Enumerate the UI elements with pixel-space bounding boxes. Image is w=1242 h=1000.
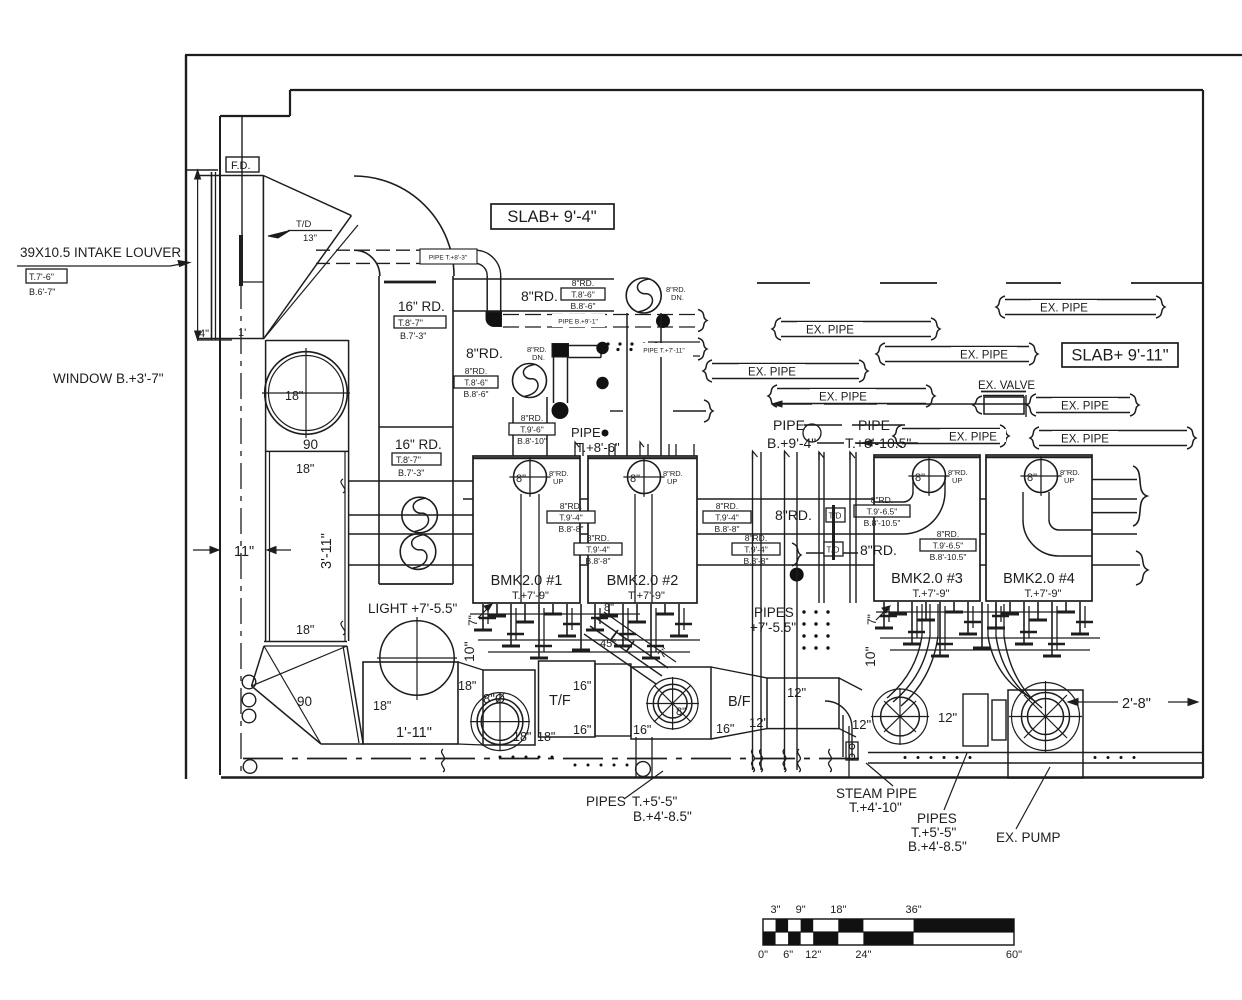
svg-text:EX. PIPE: EX. PIPE [806,325,854,337]
svg-text:2'-8": 2'-8" [1122,696,1151,712]
svg-text:T.8'-7": T.8'-7" [398,318,423,328]
slab edge dash 4 [1131,282,1203,284]
duct 16RD top bar [384,281,436,284]
scale bar [763,919,1014,945]
svg-text:EX. PIPE: EX. PIPE [819,392,867,404]
junction dot mid [790,568,804,582]
svg-text:PIPE B.+9'-1": PIPE B.+9'-1" [558,319,598,326]
fan 8RD top [626,278,661,313]
elbow90 left slant [252,646,265,686]
transition diagonal inner [263,225,358,339]
svg-text:T.9'-6.5": T.9'-6.5" [867,507,898,517]
label 8RD boxed left [454,366,498,399]
duct 16RD divider [379,426,453,428]
svg-text:8": 8" [630,473,640,485]
louver dim arrow bottom [195,331,201,340]
svg-text:T.9'-4": T.9'-4" [744,545,768,555]
riser flag b [850,452,855,460]
pump1 rect [483,670,535,745]
dim 2-8 [1068,701,1118,703]
band break 4 [783,749,786,772]
stub flags [575,442,579,448]
TD box b [824,542,843,556]
svg-text:T.7'-6": T.7'-6" [29,272,54,282]
svg-text:BMK2.0 #2: BMK2.0 #2 [607,573,679,589]
svg-text:T.9'-6.5": T.9'-6.5" [933,541,964,551]
svg-text:B.7'-3": B.7'-3" [398,468,424,478]
riser line through F.D. [241,116,243,283]
dotted run a [606,342,609,345]
svg-text:EX. PUMP: EX. PUMP [996,830,1061,845]
ex pipe 4 [768,385,935,407]
svg-text:8"RD.: 8"RD. [937,529,959,539]
ex valve bars [981,391,1026,393]
flange band hlines b [880,637,1100,639]
plenum inner tick [242,281,263,283]
svg-text:8": 8" [516,473,526,485]
TF box [539,661,596,737]
flange band hlines a [478,639,700,641]
unit BMK2.0 #4 box [986,455,1092,601]
duct drop right wall [546,397,548,456]
duct 16RD left wall [378,276,380,584]
L-pipe end dot [552,402,569,419]
svg-text:8"RD.: 8"RD. [521,413,543,423]
wall step vertical [289,90,291,116]
riser thick bar [832,505,835,560]
riser flag a [819,452,824,460]
duct 8RD top line [453,278,614,280]
dotted run b [603,348,606,351]
svg-text:18": 18" [296,462,314,476]
duct12 elbow [839,678,862,690]
label a [547,501,595,534]
svg-text:45°: 45° [600,638,617,650]
slab edge dash 3 [1006,282,1061,284]
unit 3 fan [913,460,946,493]
hose set A [893,636,930,702]
unit 2 fan [628,461,661,494]
band circle left [243,760,257,774]
svg-text:36": 36" [906,904,922,916]
svg-text:T/D: T/D [296,219,311,230]
pipe brace mid [792,543,801,566]
plenum box bottom [198,338,264,340]
svg-text:9": 9" [796,904,806,916]
pipes down pair [635,737,637,777]
svg-text:DN.: DN. [532,353,545,362]
svg-text:18": 18" [296,623,314,637]
unit BMK2.0 #3 box [874,455,980,601]
hose stubs A [921,604,923,636]
svg-text:16" RD.: 16" RD. [398,299,445,314]
pipe B+9-1 bottom [503,326,700,328]
svg-text:3'-11": 3'-11" [319,533,335,569]
diag duct ticks [610,630,618,641]
ex pipe 8 [1030,427,1196,449]
riser pipes vertical [818,452,820,603]
band dots [499,756,502,759]
fan twin upper [402,497,438,533]
unit 2 internal pipes [634,494,636,603]
elbow inner arc [354,250,380,276]
slab 9-4 box [491,204,614,229]
svg-text:STEAM PIPE: STEAM PIPE [836,786,917,801]
BF diag top [711,667,767,678]
diag duct lines [596,618,668,668]
label e [920,529,976,562]
louver top tick [186,169,218,171]
svg-text:SLAB+ 9'-11": SLAB+ 9'-11" [1071,347,1168,365]
svg-text:7": 7" [466,615,480,626]
unit 4 fan [1025,460,1058,493]
svg-text:T/D: T/D [829,512,842,521]
pump1 [471,693,529,751]
wall step horizontal [220,115,290,117]
steam flange [846,742,858,760]
duct 8RD bottom line [453,310,614,312]
svg-text:8"RD.: 8"RD. [572,278,594,288]
svg-text:90: 90 [297,694,312,709]
label d [732,533,780,566]
L-pipe verticals [553,357,555,403]
elbow90 diag b [252,646,348,686]
circle 18 top [265,352,348,435]
svg-text:PIPE T.+7'-11": PIPE T.+7'-11" [643,348,685,355]
pipe line y479 r [1092,479,1137,481]
column sides upper [265,340,267,452]
svg-text:T.9'-4": T.9'-4" [586,545,610,555]
svg-text:T.9'-6": T.9'-6" [520,425,544,435]
band circle mid [636,762,651,777]
svg-text:UP: UP [952,476,962,485]
svg-text:B.7'-3": B.7'-3" [400,331,426,341]
svg-text:T.9'-4": T.9'-4" [715,513,739,523]
svg-text:18": 18" [830,904,846,916]
svg-text:16": 16" [573,679,591,693]
pipe elbow filled [486,312,502,327]
pipes flag tops [753,451,758,459]
slab 9-11 box [1062,343,1178,367]
pump4 [1012,683,1080,751]
svg-text:T.+7'-9": T.+7'-9" [628,590,665,602]
pipe hidden label [420,249,477,264]
band break 1 [442,749,445,772]
svg-text:BMK2.0 #3: BMK2.0 #3 [891,571,963,587]
svg-text:8"RD.: 8"RD. [745,533,767,543]
band break 5 [798,749,801,772]
column walls [265,452,267,641]
ex pipe 1 [772,318,940,340]
column top line [266,340,349,342]
svg-text:EX. PIPE: EX. PIPE [1040,303,1088,315]
pipe B+9-1 label [552,314,605,327]
box 1-11 [363,662,458,744]
flange band unit3-4 [883,602,885,628]
svg-text:8"RD.: 8"RD. [860,542,897,558]
unit 1 fan [514,461,547,494]
junction dot [656,314,670,328]
L-pipe black square [552,344,569,358]
svg-text:LIGHT +7'-5.5": LIGHT +7'-5.5" [368,601,457,616]
plenum right edge [262,176,264,340]
svg-text:8"RD.: 8"RD. [775,507,812,523]
svg-text:B.8'-8": B.8'-8" [744,556,769,566]
stub line y411 [610,410,623,412]
svg-text:13": 13" [303,233,317,244]
svg-text:BMK2.0 #4: BMK2.0 #4 [1003,571,1075,587]
louver elev box [26,269,67,283]
svg-text:T.+5'-5": T.+5'-5" [632,794,677,809]
svg-text:EX. PIPE: EX. PIPE [1061,401,1109,413]
valve feed line [772,403,812,405]
svg-text:8": 8" [915,472,925,484]
svg-text:24": 24" [855,949,871,961]
duct 16RD right wall [452,276,454,584]
pump4 rect [1008,690,1083,778]
fan twin lower [400,534,436,570]
svg-text:8": 8" [1027,472,1037,484]
pipe riser left [486,276,488,313]
svg-text:0": 0" [758,949,768,961]
svg-text:B.+4'-8.5": B.+4'-8.5" [908,839,967,854]
pump34 rects [963,694,988,746]
svg-text:60": 60" [1006,949,1022,961]
ex pipe 5 [996,296,1165,318]
ex valve stem [1025,395,1027,417]
svg-text:PIPES: PIPES [917,811,957,826]
svg-text:3": 3" [771,904,781,916]
svg-text:18": 18" [373,699,391,713]
elbow90 right slant [347,646,363,743]
mid box [595,664,631,736]
plenum box top [198,175,263,177]
dots grid mid [802,610,805,613]
wall inner top [290,89,1203,91]
svg-text:T.+7'-9": T.+7'-9" [1025,588,1062,600]
pump2 rect [631,667,711,739]
svg-text:B.+4'-8.5": B.+4'-8.5" [633,809,692,824]
pipe B+9-1 break [698,310,707,332]
svg-text:B/F: B/F [728,694,751,710]
pipe hidden top [316,249,420,251]
stubs above units [574,444,576,456]
pump3 [873,689,928,744]
svg-text:PIPE: PIPE [571,425,601,440]
svg-text:T.9'-4": T.9'-4" [559,513,583,523]
unit 4 internal elbow [1023,520,1059,556]
dim 11 arrow left [193,549,215,551]
hose stubs B [987,604,989,636]
duct drop left wall [512,397,514,456]
svg-text:EX. PIPE: EX. PIPE [949,432,997,444]
band line upper [868,752,1203,754]
label c [703,501,751,534]
intake louver double line [211,172,213,340]
svg-text:B.8'-8": B.8'-8" [559,524,584,534]
svg-text:18": 18" [285,389,303,403]
svg-text:18": 18" [458,679,476,693]
pipe elbow outer arc [477,250,501,276]
svg-text:B.8'-10.5": B.8'-10.5" [930,552,967,562]
svg-text:T.+7'-9": T.+7'-9" [512,590,549,602]
svg-text:12": 12" [805,949,821,961]
svg-text:8"RD.: 8"RD. [560,501,582,511]
hose set B [996,636,1036,702]
ex pipe 2 [703,360,868,382]
line below circle [266,450,349,452]
svg-text:EX. PIPE: EX. PIPE [1061,434,1109,446]
unit 1 internal pipes [520,494,522,603]
svg-text:1': 1' [238,327,246,339]
svg-text:T.+5'-5": T.+5'-5" [911,825,956,840]
ex pipe 3 [876,343,1038,365]
svg-text:PIPES: PIPES [754,605,794,620]
svg-text:F.D.: F.D. [231,160,251,172]
svg-text:B.8'-6": B.8'-6" [571,301,596,311]
svg-text:8"RD.: 8"RD. [587,533,609,543]
svg-text:1'-11": 1'-11" [396,725,432,741]
pipe T+7-11 [648,341,700,343]
svg-text:EX. PIPE: EX. PIPE [748,367,796,379]
conn diag bottom [458,744,483,745]
svg-text:T/F: T/F [549,693,571,709]
F.D. label box [226,157,259,172]
band break 2 [752,749,755,772]
svg-text:B.8'-8": B.8'-8" [715,524,740,534]
column breaks [341,479,345,493]
centerline dashed [240,283,242,775]
svg-text:12": 12" [787,685,806,700]
svg-text:UP: UP [667,477,677,486]
pipe B+9-1 top [503,314,700,316]
svg-text:T.8'-6": T.8'-6" [571,290,595,300]
label 8RD boxed top [561,278,605,311]
svg-text:10": 10" [461,641,477,662]
louver leader [17,265,170,267]
svg-text:8"RD.: 8"RD. [466,345,503,361]
duct riser right wall [660,313,662,456]
elbow outer arc [354,176,454,276]
wall left [185,55,187,779]
wall bottom [221,776,1203,778]
svg-text:WINDOW B.+3'-7": WINDOW B.+3'-7" [53,371,164,386]
svg-text:PIPES: PIPES [586,794,626,809]
svg-text:12": 12" [852,717,871,732]
pump2 [647,678,698,729]
flange band unit1-2 [482,604,484,630]
conn diag top [458,662,483,670]
pipe brace right [1133,466,1147,526]
svg-text:BMK2.0 #1: BMK2.0 #1 [491,573,563,589]
svg-text:8"RD.: 8"RD. [465,366,487,376]
ex pipe 6 [1027,394,1139,416]
transition diagonal upper [263,176,351,216]
svg-text:8": 8" [676,706,686,718]
band line lower [868,762,1203,764]
dim 11 arrow right [271,549,291,551]
wall right [1202,90,1204,778]
svg-text:DN.: DN. [671,293,684,302]
svg-text:39X10.5 INTAKE LOUVER: 39X10.5 INTAKE LOUVER [20,245,181,260]
svg-text:10": 10" [862,646,878,667]
slab edge dash 1 [757,282,810,284]
svg-text:T.8'-6": T.8'-6" [464,378,488,388]
svg-text:EX. PIPE: EX. PIPE [960,350,1008,362]
pipe brace right2 [1136,551,1148,585]
svg-text:EX. VALVE: EX. VALVE [978,380,1035,392]
pipe line y565 [349,564,1140,566]
svg-text:T.+4'-10": T.+4'-10" [849,800,902,815]
pipe line y499 [463,498,1137,500]
pipe line y481 [349,480,473,482]
unit 3 internal elbow [903,492,945,534]
svg-text:UP: UP [1064,476,1074,485]
elbow down right [825,701,852,728]
svg-text:8"RD.: 8"RD. [521,288,558,304]
svg-text:6": 6" [783,949,793,961]
pipes vertical group [752,452,754,770]
unit BMK2.0 #1 box [473,456,580,603]
triple circles [242,675,256,689]
elbow90 top edge [264,641,347,643]
transition diagonal lower [263,216,351,339]
pipe elbow inner arc [477,263,487,276]
louver dim line [197,172,199,338]
svg-text:8"Ø: 8"Ø [483,691,505,706]
slab edge dash 2 [880,282,937,284]
svg-text:16": 16" [573,723,591,737]
svg-text:12": 12" [749,715,768,730]
svg-text:SLAB+ 9'-4": SLAB+ 9'-4" [507,208,596,226]
louver dim arrow top [195,170,201,179]
svg-text:B.8'-6": B.8'-6" [464,389,489,399]
label 8RD drop [509,413,555,446]
svg-text:11": 11" [234,544,254,560]
TD box a [826,508,845,522]
svg-text:16": 16" [633,723,651,737]
label f [854,495,910,528]
light circle [380,621,454,695]
elbow90 diag a [264,646,321,744]
pipe line y553 [806,552,858,554]
svg-text:B.+9'-4": B.+9'-4" [767,435,816,451]
svg-text:8"RD.: 8"RD. [871,495,893,505]
svg-text:B.8'-10.5": B.8'-10.5" [864,518,901,528]
svg-text:+7'-5.5": +7'-5.5" [750,620,796,635]
svg-text:16": 16" [716,722,734,736]
wall top [185,54,1242,56]
pipe line y512 r [1092,512,1137,514]
duct 16RD bottom [379,583,453,585]
unit BMK2.0 #2 box [588,456,697,603]
duct 12 rect [767,678,839,729]
pipe hidden bottom [316,262,420,264]
pipe line y515 [349,514,473,516]
L-pipe top lines [569,345,602,347]
svg-text:8"RD.: 8"RD. [716,501,738,511]
ex pipe 7 [893,425,1009,447]
svg-text:T.+7'-9": T.+7'-9" [913,588,950,600]
ex valve body [984,397,1024,414]
svg-text:90: 90 [303,437,318,452]
wall inner left [219,116,221,775]
band dashdot [243,758,868,760]
label b [574,533,622,566]
svg-text:PIPE T.+8'-3": PIPE T.+8'-3" [429,255,468,262]
svg-text:PIPE: PIPE [773,417,805,433]
pipe dot b [596,377,608,389]
